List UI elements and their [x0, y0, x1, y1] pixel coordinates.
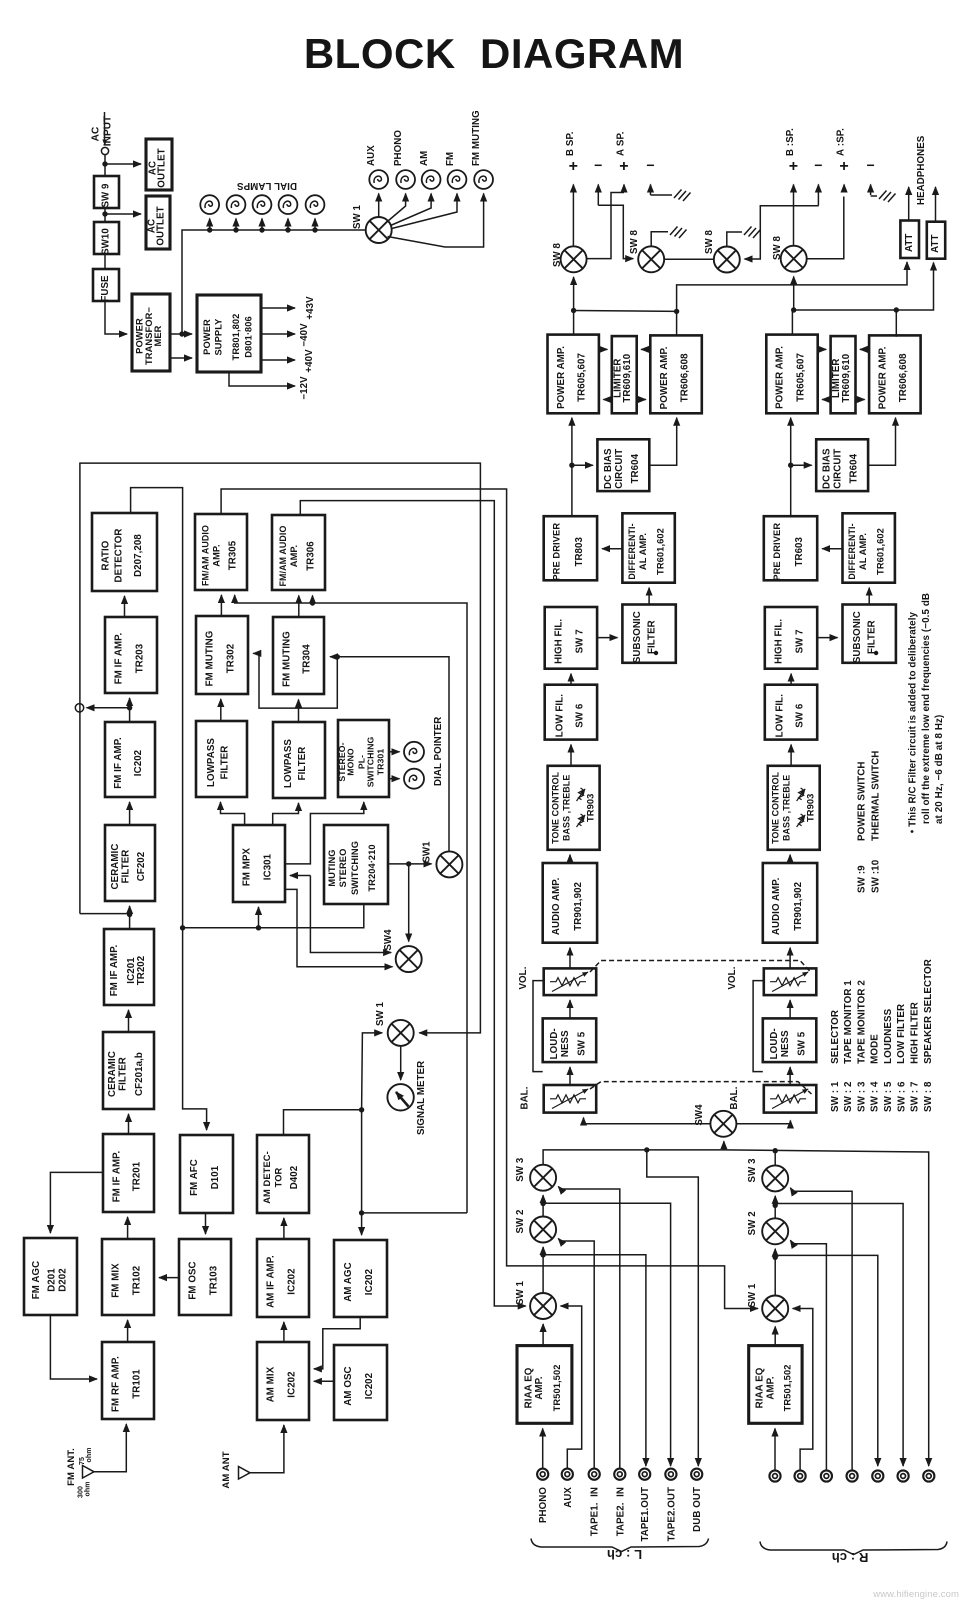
svg-text:75: 75 — [79, 1457, 86, 1465]
svg-text:ATT: ATT — [930, 234, 941, 252]
svg-text:D207,208: D207,208 — [133, 534, 144, 577]
svg-text:TR101: TR101 — [131, 1369, 142, 1399]
svg-text:SUPPLY: SUPPLY — [213, 318, 223, 356]
wire AM MIX to AM IF amp — [283, 1322, 285, 1342]
wire bus to SW3 right top — [774, 1151, 776, 1166]
switch SW8 left B — [561, 246, 587, 272]
wire balance to loudness — [569, 1067, 571, 1085]
svg-text:−40V: −40V — [299, 323, 310, 347]
svg-text:TR903: TR903 — [806, 794, 816, 822]
wire FM RF amp to FM MIX — [127, 1320, 129, 1342]
switch SW1 selector — [530, 1293, 556, 1319]
svg-text:LOUDNESS: LOUDNESS — [883, 1008, 894, 1064]
svg-text:LOW FIL.: LOW FIL. — [775, 694, 786, 738]
svg-text:DIFFERENTI-: DIFFERENTI- — [847, 523, 857, 579]
svg-text:VOL.: VOL. — [518, 966, 529, 989]
mode bus wire SW3 tops to SW4 — [543, 1150, 929, 1466]
speaker terminal +A A&#160;:SP. — [843, 185, 845, 193]
wire SW1 meter to signal meter — [400, 1046, 402, 1080]
svg-text:AMP.: AMP. — [211, 544, 221, 566]
svg-text:IC202: IC202 — [364, 1373, 375, 1399]
wire PA1 to limiter top — [818, 348, 826, 350]
svg-text:SPEAKER SELECTOR: SPEAKER SELECTOR — [923, 959, 934, 1064]
wire L junction bus — [574, 310, 677, 313]
speaker terminal -A — [870, 185, 872, 196]
svg-text:FM AGC: FM AGC — [31, 1261, 42, 1299]
wire AM level junction to SW1 meter left — [362, 1033, 383, 1110]
wire SW8 mid to ground — [727, 232, 742, 247]
AM lamp — [422, 170, 441, 189]
wire TAPE2 IN right jack to SW3R — [790, 1188, 852, 1471]
svg-text:SW 3: SW 3 — [515, 1157, 526, 1182]
wire RIAA right to SW1R — [774, 1327, 776, 1346]
switch SW10 — [94, 222, 119, 255]
svg-text:NESS: NESS — [560, 1030, 571, 1057]
svg-text:300: 300 — [78, 1486, 85, 1498]
svg-text:FM IF AMP.: FM IF AMP. — [111, 1151, 122, 1203]
wire -B to SW8 A switch — [598, 205, 633, 258]
input jack R — [847, 1470, 858, 1481]
svg-text:CERAMIC: CERAMIC — [110, 844, 121, 890]
input jack L TAPE1.&#160;&#160;IN — [589, 1469, 600, 1480]
arrow into FM MPX bottom — [258, 907, 260, 928]
FM MPX IC301 — [233, 825, 285, 902]
svg-text:AM DETEC-: AM DETEC- — [262, 1151, 272, 1204]
attenuator ATT 2 — [927, 222, 945, 259]
svg-text:SW 1: SW 1 — [515, 1280, 526, 1305]
svg-text:SW : 4: SW : 4 — [870, 1081, 881, 1112]
power supply -40V output — [261, 333, 295, 335]
volume pot box — [764, 968, 817, 995]
svg-text:TR801,802: TR801,802 — [231, 314, 241, 361]
power amp TR605,607 — [766, 335, 817, 414]
stereo-mono PL-switching TR301 — [337, 720, 389, 797]
wire limiter to PA1 bottom — [822, 399, 830, 401]
wire AUX right jack to SW1R — [793, 1309, 813, 1471]
svg-text:BLOCK DIAGRAM: BLOCK DIAGRAM — [304, 30, 684, 77]
FM osc TR103 — [179, 1239, 231, 1315]
svg-text:SW 9: SW 9 — [101, 183, 112, 208]
speaker terminal +A A&#160;SP. — [623, 185, 625, 193]
svg-text:SW 8: SW 8 — [772, 235, 783, 260]
svg-text:TR606,608: TR606,608 — [898, 353, 909, 402]
svg-text:SW 8: SW 8 — [704, 229, 715, 254]
subsonic filter — [622, 605, 675, 664]
fuse — [93, 269, 119, 302]
wire FM antenna to FM RF amp — [94, 1424, 126, 1472]
svg-text:FM MIX: FM MIX — [111, 1263, 122, 1298]
wire dc bias to PA2 — [868, 418, 895, 465]
pre driver TR803 — [544, 516, 597, 580]
attenuator ATT 1 — [900, 221, 919, 259]
input jack L PHONO — [537, 1469, 548, 1480]
svg-text:SW 1: SW 1 — [747, 1283, 758, 1308]
svg-text:FM OSC: FM OSC — [188, 1261, 199, 1299]
wire limiter to PA1 bottom — [603, 399, 611, 401]
wire SW1 to AM lamp — [391, 194, 432, 226]
svg-text:AMP.: AMP. — [765, 1376, 776, 1400]
wire SW2 to SW3 — [542, 1195, 544, 1216]
svg-text:TONE CONTROL: TONE CONTROL — [771, 771, 781, 844]
tone control box — [768, 766, 820, 850]
AM audio feed line to TR305 and TR306 — [235, 595, 467, 1213]
svg-text:TR609,610: TR609,610 — [622, 354, 633, 403]
wire -A right to ground — [871, 195, 877, 197]
wire SW8 B out to +A terminal — [586, 193, 624, 259]
svg-text:TAPE1.OUT: TAPE1.OUT — [640, 1487, 651, 1542]
wire CF201 to IC201 — [128, 1010, 130, 1032]
wire pre driver to PA1 via dc bias junction — [571, 418, 573, 516]
AM IF amp IC202 — [257, 1239, 309, 1317]
wire loudness to volume — [569, 1000, 571, 1018]
switch SW8 right — [781, 246, 807, 272]
svg-text:BAL.: BAL. — [729, 1086, 740, 1109]
wire lowpass2 to TR304 — [298, 700, 300, 723]
svg-text:SW : 3: SW : 3 — [856, 1081, 867, 1112]
wire -A left to ground — [651, 194, 673, 196]
power amp TR605,607 — [548, 335, 599, 414]
volume pot box — [544, 968, 597, 995]
L channel tuner audio line TR305 to SW1R — [221, 489, 758, 1309]
FM level line to SW1 meter — [80, 463, 481, 1033]
svg-text:SUBSONIC: SUBSONIC — [632, 611, 643, 663]
svg-text:AUX: AUX — [366, 145, 377, 166]
wire tone control to low filter — [790, 745, 792, 766]
svg-text:−: − — [594, 157, 602, 173]
svg-text:RIAA EQ: RIAA EQ — [755, 1367, 766, 1408]
FM/AM audio amp TR305 — [195, 514, 247, 590]
svg-text:ATT: ATT — [904, 234, 915, 252]
svg-text:SW : 2: SW : 2 — [843, 1081, 854, 1112]
ceramic filter CF202 — [105, 825, 155, 901]
power amp TR606,608 — [869, 335, 921, 413]
signal meter — [387, 1084, 413, 1110]
switch SW3 — [530, 1165, 556, 1191]
svg-text:FM IF AMP.: FM IF AMP. — [113, 737, 124, 789]
wire low filter to high filter — [570, 674, 572, 685]
svg-text:DC BIAS: DC BIAS — [603, 448, 614, 489]
wire balance to loudness — [789, 1067, 791, 1085]
wire composite to FM MPX bottom — [183, 904, 364, 928]
wire TR302 to TR305 — [220, 595, 222, 616]
ratio detector D207,208 — [92, 513, 157, 591]
wire SW2 to SW3 — [774, 1196, 776, 1218]
FM IF amp IC201 TR202 — [104, 929, 154, 1005]
svg-text:SW 7: SW 7 — [574, 629, 585, 653]
wire PA2 to limiter top — [641, 348, 650, 350]
switch SW3 — [762, 1165, 788, 1191]
wire to AC outlet 1 — [105, 163, 141, 165]
wire lowpass1 to TR302 — [220, 699, 222, 721]
svg-text:VOL.: VOL. — [727, 966, 738, 989]
svg-text:BASS ,TREBLE: BASS ,TREBLE — [562, 775, 572, 841]
balance gang dashed wire — [590, 1082, 812, 1094]
input jack R — [795, 1470, 806, 1481]
svg-text:roll off the extreme low end f: roll off the extreme low end frequencies… — [921, 593, 932, 824]
svg-text:+: + — [789, 158, 798, 175]
svg-text:at 20 Hz, −6 dB at 8 Hz): at 20 Hz, −6 dB at 8 Hz) — [934, 715, 945, 824]
input jack L TAPE2.OUT — [665, 1469, 676, 1480]
wire transformer to power supply upper — [170, 333, 192, 335]
svg-text:TR903: TR903 — [586, 794, 596, 822]
svg-text:SW :10: SW :10 — [870, 859, 881, 893]
svg-text:CF201a,b: CF201a,b — [134, 1052, 145, 1096]
switch SW2 — [762, 1218, 788, 1244]
differential amp TR601,602 — [843, 513, 895, 582]
svg-text:TONE CONTROL: TONE CONTROL — [551, 771, 561, 844]
svg-text:FM ANT.: FM ANT. — [66, 1448, 77, 1486]
footnote bullet in subsonic filter — [654, 651, 658, 655]
svg-text:TR803: TR803 — [574, 536, 585, 566]
muting control net from SW1 to TR304 and TR302 — [330, 657, 449, 852]
wire RIAA left to SW1L — [542, 1324, 544, 1346]
svg-text:SW 3: SW 3 — [747, 1158, 758, 1183]
svg-text:LOWPASS: LOWPASS — [283, 739, 294, 788]
svg-text:AM OSC: AM OSC — [343, 1366, 354, 1405]
svg-text:SW 5: SW 5 — [576, 1031, 587, 1056]
svg-text:FILTER: FILTER — [297, 747, 308, 781]
FM RF amp TR101 — [102, 1342, 154, 1419]
wire FM MPX to lowpass1 — [221, 802, 245, 825]
FM/AM audio amp TR306 — [272, 515, 325, 590]
svg-text:IC202: IC202 — [133, 750, 144, 776]
svg-text:FM/AM AUDIO: FM/AM AUDIO — [201, 525, 211, 586]
svg-text:FUSE: FUSE — [100, 275, 111, 302]
FM AFC D101 — [180, 1135, 233, 1213]
svg-text:SUBSONIC: SUBSONIC — [852, 611, 863, 663]
wire SW1 to FM MUTING lamp — [388, 194, 484, 248]
footnote bullet in subsonic filter — [874, 651, 878, 655]
svg-text:FM MUTING: FM MUTING — [471, 110, 482, 166]
wire loudness to volume — [789, 1000, 791, 1018]
svg-text:TR609,610: TR609,610 — [841, 354, 852, 403]
svg-text:TR201: TR201 — [132, 1161, 143, 1191]
volume gang dashed wire — [590, 961, 812, 974]
brace R channel — [760, 1542, 947, 1555]
wire R bus to power amp tops — [791, 310, 793, 335]
wire FM AGC to FM RF amp — [50, 1315, 97, 1379]
wire TR201 to FM AGC — [50, 1172, 103, 1233]
svg-text:LOW FILTER: LOW FILTER — [896, 1004, 907, 1064]
wire junction to AM AGC top — [361, 1213, 363, 1235]
wire SW1 to AUX lamp — [378, 194, 380, 218]
svg-text:FILTER: FILTER — [646, 620, 657, 654]
svg-text:MONO: MONO — [345, 748, 355, 776]
svg-text:CIRCUIT: CIRCUIT — [614, 449, 625, 489]
svg-text:AM ANT: AM ANT — [221, 1451, 232, 1488]
limiter TR609,610 — [831, 336, 856, 413]
wire R junction bus to ATT2 — [794, 263, 934, 311]
svg-text:SW : 6: SW : 6 — [896, 1081, 907, 1112]
FM IF amp IC202 — [105, 722, 155, 797]
input jack L AUX — [562, 1469, 573, 1480]
svg-text:SW 2: SW 2 — [747, 1211, 758, 1235]
svg-text:TR501,502: TR501,502 — [782, 1364, 792, 1411]
loudness tap wire — [533, 981, 544, 1072]
svg-text:FILTER: FILTER — [867, 620, 878, 654]
wire TAPE1 IN right jack to SW2R — [790, 1240, 826, 1470]
svg-text:FM MUTING: FM MUTING — [281, 631, 292, 687]
FM muting TR302 — [196, 616, 248, 694]
svg-text:ohm: ohm — [86, 1447, 93, 1462]
wire FM MPX lower output to SW4 — [285, 889, 393, 966]
svg-text:SW 6: SW 6 — [574, 703, 585, 728]
svg-text:POWER: POWER — [202, 319, 212, 355]
svg-text:D402: D402 — [289, 1166, 300, 1190]
wire TR304 to TR306 — [298, 596, 300, 618]
switch SW2 — [530, 1217, 556, 1243]
svg-text:D801⋅806: D801⋅806 — [243, 316, 253, 358]
switch SW1 tuner top — [436, 851, 462, 877]
svg-text:LOUD-: LOUD- — [549, 1028, 560, 1059]
wire SW8 A to ground — [651, 232, 668, 247]
input jack R — [898, 1470, 909, 1481]
svg-text:SW10: SW10 — [101, 228, 112, 255]
pre driver TR603 — [764, 516, 817, 580]
svg-text:TR901,902: TR901,902 — [793, 882, 804, 931]
wire right -B to SW8 mid input — [745, 206, 819, 259]
wire tone control to low filter — [570, 745, 572, 766]
svg-text:TR605,607: TR605,607 — [577, 353, 588, 402]
wire SW4 to FM MPX control — [290, 875, 310, 877]
svg-text:R : ch: R : ch — [832, 1550, 869, 1565]
svg-text:PHONO: PHONO — [538, 1487, 549, 1523]
wire PA2 to limiter top — [860, 348, 869, 350]
R channel tuner audio line TR306 to SW1L — [300, 501, 525, 1306]
svg-text:−: − — [646, 157, 654, 173]
svg-text:TR605,607: TR605,607 — [795, 353, 806, 402]
wire diff amp to pre driver — [822, 548, 842, 550]
wire SW1 to FM lamp — [392, 194, 457, 229]
svg-text:RIAA EQ: RIAA EQ — [523, 1367, 534, 1408]
svg-text:FM: FM — [445, 152, 456, 166]
svg-text:TR305: TR305 — [228, 540, 239, 570]
dial lamp bus wire — [182, 230, 365, 334]
loudness tap wire — [753, 981, 764, 1072]
muting stereo switching TR204-210 — [324, 825, 388, 904]
svg-text:PHONO: PHONO — [393, 130, 404, 166]
svg-text:POWER AMP.: POWER AMP. — [556, 346, 567, 409]
svg-text:FILTER: FILTER — [117, 1057, 128, 1091]
wire muting stereo box to SW1 tuner — [388, 863, 432, 865]
AUX lamp — [369, 170, 388, 189]
svg-text:TR302: TR302 — [225, 644, 236, 674]
switch SW1 meter — [388, 1020, 414, 1046]
dial lamp 5 — [306, 195, 325, 232]
AM antenna symbol — [221, 1451, 250, 1488]
low filter SW6 — [545, 685, 597, 740]
svg-text:MODE: MODE — [870, 1034, 881, 1064]
svg-text:SW : 8: SW : 8 — [923, 1081, 934, 1112]
balance pot box — [544, 1085, 597, 1113]
svg-text:+: + — [619, 158, 628, 175]
tone control box — [548, 766, 600, 850]
wire subsonic to diff amp — [868, 588, 870, 605]
svg-text:FM/AM AUDIO: FM/AM AUDIO — [278, 526, 288, 587]
wire SW2R-SW3R junction to TAPE2 OUT right jack — [775, 1204, 903, 1467]
wire SW8 A to SW8 mid — [664, 258, 714, 260]
switch SW8 mid — [714, 247, 740, 273]
lowpass filter 2 — [273, 722, 325, 798]
svg-text:TR306: TR306 — [305, 541, 316, 571]
svg-text:FILTER: FILTER — [220, 746, 231, 780]
AM detector D402 — [257, 1135, 309, 1213]
wire AUX jack to SW1L — [561, 1306, 582, 1468]
svg-text:+: + — [569, 158, 578, 175]
wire limiter to PA2 bottom — [856, 399, 865, 401]
svg-text:PRE DRIVER: PRE DRIVER — [552, 523, 562, 581]
switch SW8 left A — [638, 246, 664, 272]
svg-text:SIGNAL METER: SIGNAL METER — [416, 1061, 427, 1135]
switch SW1 selector — [762, 1296, 788, 1322]
input jack R — [872, 1470, 883, 1481]
wire L headphone feed — [677, 262, 907, 311]
svg-text:AM AGC: AM AGC — [343, 1262, 354, 1302]
svg-text:TOR: TOR — [273, 1167, 283, 1187]
dial pointer lamp 1 — [404, 742, 424, 762]
svg-text:AL AMP.: AL AMP. — [858, 533, 868, 570]
AGC node circle — [75, 704, 83, 712]
svg-text:TR601,602: TR601,602 — [655, 528, 665, 575]
dc bias circuit TR604 — [597, 439, 649, 491]
svg-text:DIFFERENTI-: DIFFERENTI- — [627, 523, 637, 579]
input jack L TAPE2.&#160;&#160;IN — [614, 1469, 625, 1480]
FM IF amp TR203 — [105, 617, 157, 693]
wire dc bias to PA2 — [649, 418, 676, 465]
svg-text:LOUD-: LOUD- — [769, 1028, 780, 1059]
switch SW4 mode — [710, 1111, 736, 1137]
wire CF202 to IC202 — [129, 802, 131, 825]
svg-text:FM RF AMP.: FM RF AMP. — [111, 1356, 122, 1412]
svg-text:BAL.: BAL. — [520, 1086, 531, 1109]
svg-text:D202: D202 — [57, 1268, 68, 1292]
svg-text:DUB OUT: DUB OUT — [692, 1487, 703, 1532]
svg-text:AMP.: AMP. — [289, 545, 299, 567]
wire AM antenna to AM MIX — [250, 1425, 284, 1473]
wire FM AFC to FM OSC — [205, 1213, 207, 1234]
wire TAPE1 IN jack to SW2L — [558, 1239, 594, 1469]
speaker terminal +B B&#160;SP. — [572, 185, 574, 247]
speaker terminal +B B&#160;:SP. — [793, 185, 795, 247]
low filter SW6 — [765, 685, 817, 740]
wire TR203 to ratio detector — [124, 596, 126, 617]
wire L bus to power amp tops — [573, 311, 575, 335]
svg-text:FM AFC: FM AFC — [189, 1159, 200, 1196]
svg-text:HIGH FIL.: HIGH FIL. — [553, 619, 564, 664]
wire audio amp to tone control — [789, 855, 791, 863]
wire IC202 to TR203 — [129, 698, 131, 722]
wire SW9 to SW10 junction — [104, 208, 106, 222]
power transformer — [132, 294, 170, 371]
dial lamp 4 — [279, 195, 298, 232]
svg-text:SW 6: SW 6 — [795, 703, 806, 728]
wire PHONO right jack to RIAA right — [774, 1429, 776, 1471]
svg-text:SW 1: SW 1 — [375, 1001, 386, 1026]
svg-text:SW 1: SW 1 — [352, 204, 363, 229]
svg-text:www.hifiengine.com: www.hifiengine.com — [872, 1589, 959, 1600]
svg-text:SW : 1: SW : 1 — [830, 1081, 841, 1112]
wire audio amp to tone control — [569, 855, 571, 863]
svg-text:+43V: +43V — [305, 296, 316, 320]
svg-text:SW4: SW4 — [383, 929, 394, 951]
wire power amp R junction to SW8 right — [793, 277, 795, 311]
switch SW4 stereo — [396, 946, 422, 972]
svg-text:LOW FIL.: LOW FIL. — [555, 694, 566, 738]
svg-text:DETECTOR: DETECTOR — [113, 529, 124, 583]
brace L channel — [531, 1539, 709, 1552]
svg-text:FM IF AMP.: FM IF AMP. — [114, 633, 125, 685]
wire SW10 to fuse — [104, 254, 106, 269]
